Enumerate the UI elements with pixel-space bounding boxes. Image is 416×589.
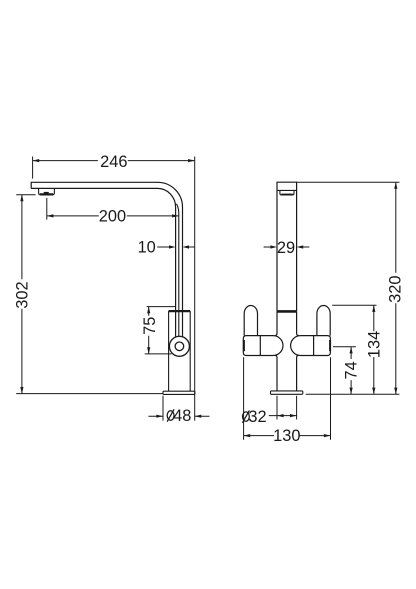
column upper segments [275,311,277,335]
label Ø32 [242,410,249,422]
left handle capsule [244,306,257,336]
tick top (aerator level) [16,194,35,196]
aerator cup [39,188,55,195]
svg-text:75: 75 [141,317,159,335]
ext line right (handle tip) [330,357,332,440]
ext line right (246 / 10 / Ø48 shared) [194,157,196,421]
arrowheads Ø48 (outside pointing inward) [156,415,201,418]
body left edge [168,311,170,391]
column lower segments [275,355,277,391]
dim line 200 [47,215,179,217]
base plate (side view) [163,391,195,394]
arrowheads 74 [350,347,353,394]
right valve body [291,336,331,356]
riser middle line [177,204,179,337]
handle pivot inner circle [175,342,184,351]
base plate (front view) [271,391,303,394]
svg-text:246: 246 [100,153,127,171]
body top thick edge [169,310,191,312]
dim line 74 [350,347,352,394]
svg-text:29: 29 [277,239,295,257]
ext lines Ø32 [277,396,297,420]
dim line 75 [148,307,150,354]
tick bottom (counter level, long) [16,393,163,395]
svg-text:302: 302 [14,281,32,308]
svg-text:130: 130 [273,427,300,445]
arrowheads 134 [372,305,375,394]
label Ø48 [167,409,174,421]
arrowheads 302 [20,195,23,394]
spout outer outline (cap + top edge + outer bend + right line) [31,182,182,337]
svg-text:74: 74 [343,361,361,379]
right handle capsule [317,306,330,336]
svg-text:10: 10 [138,238,156,256]
arrowheads 320 [394,182,397,394]
arrowheads 246 [33,159,195,162]
tick bottom 75 [145,353,172,355]
ext line left of 246 [32,157,34,179]
ext line left of base [162,396,164,421]
body right edge [189,311,191,391]
spout inner (bottom edge + inner bend + left riser line) [31,188,175,337]
dim line 29 tails [264,246,310,248]
left valve dark end cap [243,340,245,351]
aerator front box [280,190,294,195]
arrowheads 130 [244,434,331,437]
left valve body [243,336,283,356]
svg-text:200: 200 [99,208,126,226]
tick top 75 [147,306,176,308]
tick top (handle top level) [332,304,376,306]
joint thick line [277,310,297,313]
tube cap line [277,189,297,191]
spout tube (front) [277,182,297,311]
dim line 320 [395,182,397,394]
left valve divider [259,336,261,356]
arrowheads Ø32 (inside pointing outward) [277,414,297,417]
svg-text:32: 32 [248,408,266,426]
arrowheads 10 (outside, pointing inward) [169,245,189,248]
dim line 134 [373,305,375,394]
svg-text:134: 134 [366,331,384,358]
aerator bottom thick edge [40,193,53,195]
tick bottom (counter level) [306,393,400,395]
svg-text:320: 320 [386,276,404,303]
dim line 130 [244,435,331,437]
tick top (valve centre level) [333,346,356,348]
dim line 10 left tail [157,246,170,248]
aerator dark hole [44,192,49,194]
arrowheads 200 [47,214,179,217]
dim line 10 right tail [187,246,195,248]
right valve dark end cap [329,340,331,351]
dim line 246 [33,160,195,162]
svg-text:48: 48 [173,407,191,425]
aerator front bottom thick [281,193,293,195]
right valve divider [313,336,315,356]
arrowheads 29 [270,245,303,248]
handle pivot outer circle [169,336,189,356]
dim line 302 [21,195,23,394]
tick top (spout top level) [297,181,400,183]
ext line below aerator [46,198,48,220]
arrowheads 75 [147,307,150,354]
ext line left (handle tip) [243,357,245,440]
dim tails Ø48 [148,415,209,417]
dim line Ø32 [269,415,297,417]
